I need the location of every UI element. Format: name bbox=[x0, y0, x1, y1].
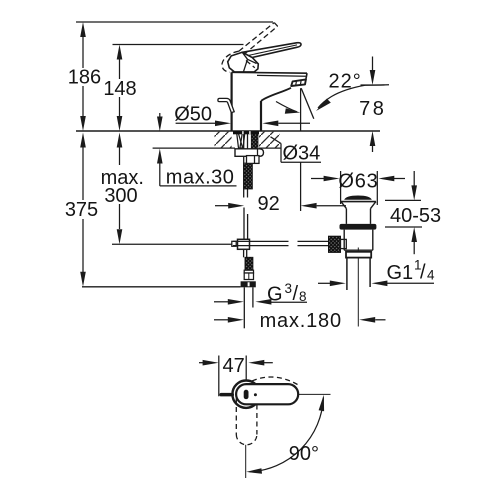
dimension Ø50 bbox=[176, 121, 310, 127]
drain flange bbox=[341, 201, 376, 203]
svg-text:300: 300 bbox=[104, 185, 137, 207]
threaded shank (knurled) bbox=[251, 131, 258, 150]
hose end reference line (max.300 level) bbox=[112, 243, 232, 245]
drain tailpipe bbox=[346, 258, 348, 290]
horseshoe washer bbox=[235, 149, 264, 157]
dimension 92 bbox=[215, 203, 346, 209]
svg-text:47: 47 bbox=[222, 355, 244, 377]
plan: dashed arc (raised lever projection) bbox=[252, 377, 298, 385]
plan: center dot bbox=[254, 393, 257, 396]
water stream 22deg line bbox=[301, 88, 314, 119]
svg-text:22°: 22° bbox=[329, 70, 362, 92]
svg-text:186: 186 bbox=[68, 67, 101, 89]
svg-text:3: 3 bbox=[285, 281, 293, 296]
reference line 148 level bbox=[113, 44, 244, 46]
vertical rod lower assembly bbox=[244, 249, 247, 257]
pop-up linkage cross block bbox=[232, 241, 236, 246]
svg-text:8: 8 bbox=[299, 289, 307, 304]
flow direction arc bbox=[276, 102, 297, 112]
drain body bbox=[343, 230, 345, 251]
knurled adjuster bbox=[245, 257, 253, 270]
plan: base circle bbox=[232, 381, 259, 408]
dimension 186 bbox=[80, 22, 86, 131]
plan: vertical reference line bbox=[245, 445, 247, 478]
braided supply hose bbox=[244, 163, 253, 189]
counter section hatch left bbox=[215, 132, 232, 148]
svg-text:90°: 90° bbox=[289, 443, 319, 465]
drain pop-up waste: plug dome bbox=[344, 196, 372, 200]
svg-text:max.180: max.180 bbox=[260, 310, 342, 332]
svg-text:375: 375 bbox=[65, 199, 98, 221]
G3/8 connection nut bbox=[241, 281, 256, 287]
dimension G3/8 bbox=[214, 299, 307, 305]
svg-text:Ø34: Ø34 bbox=[282, 142, 320, 164]
Ø34 drop extension line bbox=[300, 162, 302, 211]
water stream vertical line bbox=[300, 88, 302, 131]
svg-text:G1: G1 bbox=[387, 262, 414, 284]
base seal strip bbox=[233, 131, 259, 134]
handle lever (solid) bbox=[242, 43, 301, 58]
dimension 47 bbox=[199, 356, 273, 397]
svg-text:40-53: 40-53 bbox=[390, 205, 441, 227]
pull rod (front view, upper) bbox=[244, 132, 248, 198]
svg-text:Ø63: Ø63 bbox=[338, 170, 378, 192]
drain seal ring (dark band) bbox=[340, 224, 377, 230]
dimension G1 1/4 bbox=[318, 281, 434, 287]
handle knuckle (solid) bbox=[228, 52, 259, 72]
svg-text:148: 148 bbox=[103, 78, 136, 100]
dimension 78 bbox=[361, 57, 385, 153]
svg-text:G: G bbox=[267, 284, 283, 306]
dimension 148 bbox=[117, 45, 123, 132]
G3/8 pipe bbox=[243, 287, 245, 328]
band bbox=[244, 270, 253, 273]
top reference line (raised handle tip level) bbox=[76, 21, 273, 23]
mounting nut bbox=[247, 156, 260, 164]
dimension 40-53 bbox=[385, 171, 422, 254]
faucet body left wall bbox=[231, 72, 233, 131]
svg-text:Ø50: Ø50 bbox=[174, 103, 212, 125]
faucet body right wall bbox=[260, 101, 262, 131]
dimension 375 bbox=[80, 133, 86, 287]
90 degree arc bbox=[250, 398, 324, 472]
svg-text:/: / bbox=[420, 262, 426, 284]
dimension max.300 bbox=[117, 133, 123, 245]
plastic wedge in hole bbox=[237, 132, 246, 149]
mounting surface line bbox=[76, 130, 380, 132]
plan: horizontal reference line bbox=[298, 393, 330, 395]
aerator bbox=[291, 79, 306, 86]
pop-up rod knob (behind body) bbox=[218, 98, 234, 112]
drain centerline bbox=[357, 248, 359, 252]
svg-text:4: 4 bbox=[427, 267, 435, 282]
plan: dashed lever rotated down bbox=[236, 399, 257, 445]
plan: lever capsule bbox=[236, 384, 298, 404]
counter section hatch right bbox=[259, 132, 280, 148]
dimension max.30 (counter thickness) bbox=[157, 113, 237, 186]
segmented section bbox=[244, 273, 253, 280]
dimension Ø63 bbox=[311, 171, 405, 205]
svg-text:max.30: max.30 bbox=[166, 167, 235, 189]
drain locking ring bbox=[346, 252, 371, 258]
rod clamp knurled block at drain bbox=[329, 236, 341, 252]
svg-text:78: 78 bbox=[359, 98, 386, 120]
plan: cartridge slot bbox=[244, 390, 249, 399]
spout deck top bbox=[232, 71, 307, 74]
pull rod lower segment bbox=[244, 208, 248, 240]
375 end reference line bbox=[82, 286, 241, 288]
counter underside line bbox=[153, 147, 235, 149]
plan: pull rod knob stub bbox=[220, 393, 235, 397]
spout underside curve bbox=[261, 88, 291, 101]
svg-text:92: 92 bbox=[257, 193, 279, 215]
spout right edge bbox=[306, 73, 307, 80]
handle raised (dashed) bbox=[222, 23, 278, 73]
dimension max.180 bbox=[214, 317, 386, 323]
horizontal pop-up rod bbox=[233, 241, 329, 245]
svg-text:/: / bbox=[293, 283, 299, 305]
